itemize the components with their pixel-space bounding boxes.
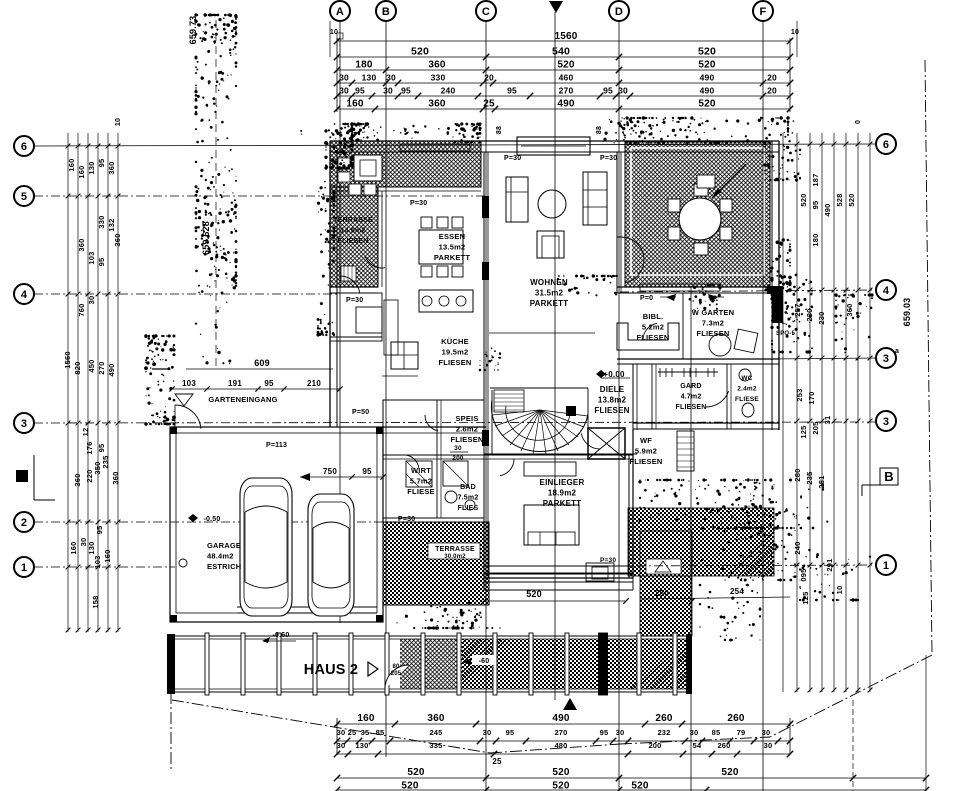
svg-text:335: 335 <box>429 741 442 750</box>
garage drain circle <box>179 559 187 567</box>
svg-text:30: 30 <box>337 741 346 750</box>
terrace inner edge top-left <box>330 187 481 287</box>
svg-text:31: 31 <box>823 416 832 425</box>
svg-text:88: 88 <box>596 126 603 134</box>
room label wirt <box>407 466 434 496</box>
svg-text:330: 330 <box>431 73 446 83</box>
room label diele <box>594 385 629 415</box>
gard left wall <box>652 364 656 429</box>
parapet label p30 b <box>504 155 521 162</box>
dense blob top-left corner of building <box>324 128 354 170</box>
room label wf <box>629 436 662 466</box>
grid bubble 3a right <box>876 348 899 368</box>
svg-text:205: 205 <box>811 421 820 434</box>
svg-text:30: 30 <box>616 728 625 737</box>
svg-text:FLIESE: FLIESE <box>407 487 434 496</box>
bottom dim 25 note <box>492 757 502 766</box>
small labels 88 below dim stack <box>496 126 603 134</box>
haus 2 label <box>304 662 378 678</box>
right dim vertical lines <box>783 133 870 692</box>
haus2 door arc <box>385 664 409 689</box>
svg-text:30: 30 <box>337 728 346 737</box>
axis line 1 <box>34 565 876 567</box>
terrace right small table <box>697 175 715 188</box>
svg-text:490: 490 <box>552 713 570 724</box>
svg-text:WF: WF <box>640 436 652 445</box>
section line vertical <box>554 12 556 700</box>
axis line 3 <box>34 422 876 423</box>
svg-text:30.0m2: 30.0m2 <box>444 554 466 560</box>
svg-text:30: 30 <box>454 445 462 452</box>
svg-text:0: 0 <box>855 120 862 124</box>
svg-text:6: 6 <box>21 141 27 153</box>
shrubs right dim area <box>834 293 873 360</box>
svg-text:490: 490 <box>107 363 116 376</box>
svg-text:95: 95 <box>97 258 106 267</box>
wohnen sofa left <box>506 177 528 222</box>
svg-text:360: 360 <box>77 238 86 251</box>
svg-text:103: 103 <box>182 379 196 388</box>
svg-text:95: 95 <box>506 728 515 737</box>
window top right rooms <box>640 284 720 291</box>
svg-text:7.3m2: 7.3m2 <box>702 319 724 328</box>
svg-text:A: A <box>336 6 344 18</box>
svg-text:10: 10 <box>835 586 844 595</box>
svg-text:-0.60: -0.60 <box>273 632 290 639</box>
stair enclosure <box>484 388 637 454</box>
section arrow bottom <box>563 698 577 710</box>
grid bubble 4 left <box>14 284 34 304</box>
svg-text:540: 540 <box>552 46 570 58</box>
right dim ticks <box>795 142 873 693</box>
blob at stair top left <box>479 347 501 371</box>
svg-text:160: 160 <box>77 165 86 178</box>
height label 659.628 <box>201 221 211 255</box>
dim 750 95 garage <box>300 467 386 481</box>
shrubs right corner top <box>763 120 801 181</box>
svg-text:160: 160 <box>67 158 76 171</box>
axis line 5 <box>34 195 486 197</box>
grid bubble D <box>609 1 629 21</box>
svg-text:GARTENEINGANG: GARTENEINGANG <box>208 395 277 404</box>
svg-text:176: 176 <box>85 441 94 454</box>
outer wall right <box>767 141 783 430</box>
svg-text:BAD: BAD <box>460 484 476 491</box>
svg-text:520: 520 <box>552 781 570 791</box>
svg-text:P=30: P=30 <box>600 557 616 564</box>
wohnen floor edge line <box>489 332 595 334</box>
tree band centerline <box>215 20 217 368</box>
svg-text:DIELE: DIELE <box>600 385 625 394</box>
svg-text:3: 3 <box>883 353 889 365</box>
dim 520 250 254 terrace row <box>481 587 790 604</box>
door essen <box>340 276 360 293</box>
shrubs wgarten corner <box>689 283 722 310</box>
walkway end post <box>167 634 175 694</box>
svg-text:245: 245 <box>429 728 442 737</box>
svg-text:450: 450 <box>87 359 96 372</box>
room label garage <box>207 541 241 571</box>
svg-text:490: 490 <box>823 203 832 216</box>
terrace hatch top-left column <box>330 187 378 287</box>
svg-text:3: 3 <box>21 418 27 430</box>
svg-text:2.4m2: 2.4m2 <box>737 386 757 393</box>
room label terrasse left <box>333 217 373 245</box>
left dim 10 mark <box>34 118 122 133</box>
svg-text:205: 205 <box>391 671 402 677</box>
shrubs above left terrace <box>300 122 481 143</box>
svg-text:FLIESEN: FLIESEN <box>676 404 707 411</box>
svg-text:330: 330 <box>97 215 106 228</box>
svg-text:130: 130 <box>87 541 96 554</box>
wohnen armchair <box>537 231 564 258</box>
svg-text:360: 360 <box>73 473 82 486</box>
svg-text:158: 158 <box>91 595 100 608</box>
grid bubble 6 left <box>14 136 34 156</box>
svg-text:130: 130 <box>362 73 377 83</box>
svg-text:360: 360 <box>107 161 116 174</box>
grid bubble 3 left <box>14 413 34 433</box>
svg-text:232: 232 <box>657 728 670 737</box>
svg-text:FLIESEN: FLIESEN <box>450 435 483 444</box>
svg-text:30: 30 <box>690 728 699 737</box>
svg-text:20: 20 <box>767 86 777 96</box>
svg-text:7.5m2: 7.5m2 <box>458 495 479 502</box>
svg-text:230: 230 <box>805 308 814 321</box>
svg-text:5.2m2: 5.2m2 <box>642 323 664 332</box>
shrubs right of terrace <box>770 267 813 354</box>
dim 609 garteneingang <box>152 358 333 369</box>
svg-text:520: 520 <box>411 46 429 58</box>
svg-text:520: 520 <box>721 767 739 778</box>
svg-text:280: 280 <box>793 468 802 481</box>
svg-text:54: 54 <box>693 741 702 750</box>
svg-text:270: 270 <box>97 361 106 374</box>
svg-text:750: 750 <box>323 467 337 476</box>
right dim numbers <box>793 173 856 604</box>
svg-text:ESSEN: ESSEN <box>439 232 465 241</box>
svg-text:B: B <box>382 6 390 18</box>
svg-text:520: 520 <box>401 781 419 791</box>
dim 103 191 95 210 <box>169 379 342 392</box>
svg-text:260: 260 <box>717 741 730 750</box>
boundary line right vertical <box>925 60 932 655</box>
svg-text:W GARTEN: W GARTEN <box>692 308 734 317</box>
garden vertical hatch strip <box>640 531 692 636</box>
shrubs wohnen bottom <box>557 274 618 296</box>
door diele-bibl <box>643 323 657 340</box>
axis line A <box>339 21 341 623</box>
svg-text:1560: 1560 <box>554 31 577 42</box>
terrace left chairs <box>338 158 376 195</box>
blob right mid near axis3a <box>699 584 762 642</box>
wardrobe hooks gard <box>658 368 718 377</box>
bottom dim row 2 <box>337 728 790 741</box>
door speis <box>425 415 438 431</box>
bottom dim row 4 <box>337 767 926 778</box>
window top essen <box>400 144 470 151</box>
svg-text:250: 250 <box>655 589 669 598</box>
door wf <box>581 433 600 449</box>
grid bubble 2 left <box>14 512 34 532</box>
tree band top-left <box>194 13 237 364</box>
svg-text:PARKETT: PARKETT <box>543 499 582 508</box>
svg-text:30: 30 <box>87 296 96 305</box>
svg-text:HAUS 2: HAUS 2 <box>304 662 358 678</box>
svg-text:291: 291 <box>825 558 834 571</box>
svg-text:1560: 1560 <box>63 351 72 369</box>
wall bibl wgarten divider <box>682 293 684 359</box>
small basement stair <box>677 431 694 471</box>
svg-text:520: 520 <box>631 781 649 791</box>
svg-text:P=30: P=30 <box>600 155 617 162</box>
svg-text:4.7m2: 4.7m2 <box>681 394 702 401</box>
terrace hatch top-left band <box>330 141 481 187</box>
svg-text:20: 20 <box>767 73 777 83</box>
svg-text:360: 360 <box>113 233 122 246</box>
svg-text:360: 360 <box>845 303 854 316</box>
bibl bench <box>617 323 679 350</box>
car 1 in garage <box>240 478 292 616</box>
svg-text:WC: WC <box>741 375 752 382</box>
svg-text:18.9m2: 18.9m2 <box>548 489 577 498</box>
room label einlieger <box>540 478 585 508</box>
svg-text:30: 30 <box>762 728 771 737</box>
door einlieger <box>500 459 514 476</box>
svg-text:B: B <box>884 469 894 484</box>
svg-text:103: 103 <box>87 251 96 264</box>
top dim row 2 <box>337 60 790 71</box>
grid bubble 4 right <box>876 280 896 300</box>
dense blob above terrace left part <box>350 122 414 142</box>
kueche island table <box>391 342 418 369</box>
section mark B left <box>16 455 55 500</box>
door gard <box>706 391 729 407</box>
svg-text:235: 235 <box>805 471 814 484</box>
grid bubble 6 right <box>876 134 896 154</box>
garage door <box>237 607 377 613</box>
room label bad <box>458 484 479 512</box>
svg-text:SPEIS: SPEIS <box>455 414 478 423</box>
parapet label p0 <box>640 294 724 302</box>
svg-text:95: 95 <box>362 467 372 476</box>
svg-text:TERRASSE: TERRASSE <box>333 217 373 224</box>
svg-text:360: 360 <box>428 99 446 110</box>
svg-text:5.7m2: 5.7m2 <box>410 477 432 486</box>
essen table <box>419 230 463 264</box>
axis line F <box>762 21 764 791</box>
boundary line left vertical <box>170 692 172 770</box>
svg-text:KÜCHE: KÜCHE <box>441 337 469 346</box>
garage outer walls <box>170 427 486 622</box>
svg-text:160: 160 <box>346 99 364 110</box>
svg-text:160: 160 <box>69 541 78 554</box>
entrance room walls <box>330 293 382 341</box>
grid bubble 5 left <box>14 186 34 206</box>
svg-text:P=30: P=30 <box>346 297 363 304</box>
svg-text:95: 95 <box>355 86 365 96</box>
svg-text:210: 210 <box>307 379 321 388</box>
bottom dim row 3 <box>337 741 790 754</box>
svg-text:520: 520 <box>847 193 856 206</box>
speis door size <box>450 445 468 462</box>
bottom dim row 1 <box>337 713 790 724</box>
bad fixtures <box>443 461 475 510</box>
exterior steps below einlieger <box>484 566 633 590</box>
parapet label p30 c <box>600 155 617 162</box>
svg-text:10: 10 <box>791 29 799 36</box>
svg-text:13.5m2: 13.5m2 <box>439 243 466 252</box>
svg-text:14.6m2: 14.6m2 <box>341 228 366 235</box>
door wirt <box>407 455 419 469</box>
room label wgarten <box>692 308 734 338</box>
garden band hatch below einlieger right <box>628 508 774 576</box>
svg-text:30: 30 <box>339 86 349 96</box>
svg-text:FLIESEN: FLIESEN <box>629 457 662 466</box>
svg-text:2.6m2: 2.6m2 <box>456 425 478 434</box>
svg-text:FLIESEN: FLIESEN <box>438 358 471 367</box>
svg-text:520: 520 <box>698 46 716 58</box>
svg-text:a: a <box>895 348 899 355</box>
einlieger bottom wall <box>484 573 633 578</box>
svg-text:10: 10 <box>115 118 122 126</box>
svg-text:4: 4 <box>883 285 890 297</box>
svg-text:187: 187 <box>811 173 820 186</box>
shaft box with X <box>588 428 625 459</box>
svg-text:520: 520 <box>526 589 542 599</box>
parapet label p30 e <box>398 516 415 523</box>
spiral staircase <box>491 388 588 454</box>
svg-text:490: 490 <box>700 73 715 83</box>
left dim vertical lines <box>68 133 118 632</box>
svg-text:PARKETT: PARKETT <box>434 253 470 262</box>
svg-text:520: 520 <box>557 60 575 71</box>
svg-text:170: 170 <box>807 391 816 404</box>
svg-text:30: 30 <box>764 741 773 750</box>
terrace right round table <box>679 198 721 240</box>
einlieger bed <box>524 505 579 545</box>
height label 659.03 <box>902 298 912 327</box>
room label speis <box>450 414 483 444</box>
svg-text:760: 760 <box>77 303 86 316</box>
top dim row 5 <box>337 99 790 110</box>
svg-text:820: 820 <box>73 361 82 374</box>
svg-text:P=30: P=30 <box>410 200 427 207</box>
grid bubble 1 left <box>14 557 34 577</box>
svg-text:270: 270 <box>554 728 567 737</box>
level marker 0.00 <box>596 370 630 379</box>
axis line 3a right <box>770 358 876 359</box>
svg-text:95: 95 <box>600 728 609 737</box>
window bay top wohnen <box>517 137 590 155</box>
svg-text:609: 609 <box>254 358 270 368</box>
svg-text:FLIESEN: FLIESEN <box>696 329 729 338</box>
svg-text:230: 230 <box>817 311 826 324</box>
shrubs right dim bottom <box>799 549 871 602</box>
svg-text:P=30: P=30 <box>398 516 415 523</box>
svg-text:490: 490 <box>700 86 715 96</box>
axis line E unlabeled <box>690 287 692 791</box>
terrace hatch top-right square <box>625 142 770 287</box>
svg-text:WOHNEN: WOHNEN <box>530 278 568 287</box>
grid bubble 3 right <box>876 411 896 431</box>
shrubs left of entrance <box>144 334 176 425</box>
einlieger side table <box>586 563 614 581</box>
boundary mid horizontal <box>490 737 770 753</box>
level marker -0.50 <box>188 514 220 523</box>
spine wall center <box>482 152 489 578</box>
einlieger right wall <box>629 429 633 578</box>
svg-text:P=0: P=0 <box>640 295 653 302</box>
room label essen <box>434 232 470 262</box>
svg-text:520: 520 <box>552 767 570 778</box>
grid bubble 1 right <box>876 555 896 575</box>
svg-text:95: 95 <box>507 86 517 96</box>
wohnen round table <box>538 190 566 218</box>
svg-text:5.9m2: 5.9m2 <box>635 447 657 456</box>
svg-text:95: 95 <box>97 159 106 168</box>
svg-text:30: 30 <box>483 728 492 737</box>
top dim end marks <box>330 21 799 57</box>
svg-text:130: 130 <box>87 161 96 174</box>
svg-text:200: 200 <box>452 455 464 462</box>
svg-text:48.4m2: 48.4m2 <box>207 552 234 561</box>
dense blob right of F <box>764 238 791 291</box>
left dim ticks <box>66 144 121 633</box>
terrace left drain grid <box>341 266 356 281</box>
svg-text:FLIESE: FLIESE <box>735 396 759 403</box>
top dim row 3 <box>337 73 790 84</box>
parapet label p113 <box>266 442 287 449</box>
svg-text:F: F <box>760 6 767 18</box>
top dim total 1560 <box>334 31 793 44</box>
svg-text:3: 3 <box>883 416 889 428</box>
svg-text:95: 95 <box>811 201 820 210</box>
parapet label p30 a <box>410 200 427 207</box>
door wohnen-terrace <box>617 237 644 283</box>
top dim stack side rails <box>337 38 790 112</box>
terrace right chairs <box>668 184 732 255</box>
svg-text:88: 88 <box>496 126 503 134</box>
svg-text:25: 25 <box>492 757 502 766</box>
wall left of wf <box>633 364 637 430</box>
svg-text:30: 30 <box>339 73 349 83</box>
terrace right entry arrow <box>712 164 746 198</box>
svg-text:281: 281 <box>817 475 826 488</box>
svg-text:520: 520 <box>698 60 716 71</box>
axis line B <box>385 21 387 757</box>
grid bubble B <box>376 1 396 21</box>
shrubs above right terrace <box>602 116 789 144</box>
svg-text:BIBL.: BIBL. <box>643 312 664 321</box>
svg-text:25: 25 <box>348 728 357 737</box>
terrace dotted area at garage <box>383 522 489 605</box>
shrubs garden band <box>638 478 828 529</box>
shrubs garden band right <box>701 526 796 581</box>
right dim 0 mark <box>855 120 862 124</box>
svg-text:C: C <box>482 6 490 18</box>
svg-text:520: 520 <box>799 193 808 206</box>
svg-text:2: 2 <box>21 517 27 529</box>
height label 659.73 <box>188 16 198 45</box>
svg-text:5: 5 <box>21 191 27 203</box>
svg-text:P=30: P=30 <box>504 155 521 162</box>
parapet label p30 d <box>346 297 363 304</box>
svg-text:95: 95 <box>401 86 411 96</box>
svg-text:79: 79 <box>737 728 746 737</box>
svg-text:254: 254 <box>730 587 744 596</box>
svg-text:260: 260 <box>655 713 673 724</box>
